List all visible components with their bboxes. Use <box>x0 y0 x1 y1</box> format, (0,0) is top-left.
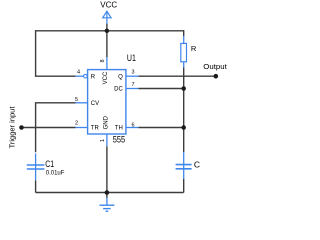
pin number 2 <box>75 121 78 127</box>
svg-text:VCC: VCC <box>100 1 117 10</box>
pin 7 DC stub <box>126 88 139 90</box>
pin name R <box>91 74 96 80</box>
node TH capacitor junction <box>181 125 186 130</box>
svg-text:R: R <box>191 44 197 53</box>
capacitor C <box>176 152 192 179</box>
pin 6 TH stub <box>126 127 139 129</box>
svg-text:U1: U1 <box>127 53 136 64</box>
power VCC arrow symbol <box>103 11 111 24</box>
svg-text:CV: CV <box>91 101 99 107</box>
svg-text:GND: GND <box>104 115 110 129</box>
pin name TR <box>91 126 100 132</box>
pin number 8 rotated <box>100 59 106 62</box>
svg-text:0.01uF: 0.01uF <box>46 170 65 177</box>
svg-text:4: 4 <box>77 70 80 76</box>
resistor R <box>181 36 187 68</box>
node trigger input terminal <box>19 125 24 130</box>
IC U1 555 timer body <box>88 70 126 134</box>
label U1 <box>127 53 136 64</box>
svg-text:8: 8 <box>100 59 106 62</box>
pin name GND rotated <box>104 115 110 129</box>
label R value <box>191 44 197 53</box>
pin name Q <box>118 74 123 80</box>
pin name CV <box>91 101 99 107</box>
pin name VCC rotated <box>103 71 109 84</box>
pin name DC <box>114 87 123 93</box>
label 0.01uF <box>46 170 65 177</box>
wire trigger input to TR pin <box>22 127 76 129</box>
wire bottom rail <box>36 192 184 194</box>
svg-text:DC: DC <box>114 87 123 93</box>
capacitor C1 <box>27 154 45 181</box>
pin 4 R stub with bubble <box>76 74 88 78</box>
pin number 7 <box>132 82 135 88</box>
svg-text:Output: Output <box>203 62 227 71</box>
svg-text:Trigger input: Trigger input <box>7 106 16 149</box>
wire VCC pin feed <box>106 24 108 58</box>
ground symbol <box>99 198 114 212</box>
svg-text:Q: Q <box>118 74 123 80</box>
pin 1 GND stub <box>106 134 108 146</box>
wire C1 to bottom rail <box>35 180 37 192</box>
svg-text:C: C <box>194 159 200 169</box>
svg-text:TR: TR <box>91 126 100 132</box>
svg-text:VCC: VCC <box>103 71 109 84</box>
pin number 4 <box>77 70 80 76</box>
svg-text:555: 555 <box>113 135 125 146</box>
label Trigger input net <box>7 106 16 149</box>
pin 8 VCC stub <box>106 57 108 69</box>
pin 3 Q stub <box>126 75 139 77</box>
wire resistor top lead <box>183 30 185 36</box>
label C value <box>194 159 200 169</box>
wire ground stub below rail <box>106 193 108 199</box>
wire top rail VCC <box>36 30 184 32</box>
node DC resistor junction <box>181 86 186 91</box>
pin number 1 rotated <box>100 139 106 142</box>
label 555 <box>113 135 125 146</box>
label VCC net <box>100 1 117 10</box>
svg-text:6: 6 <box>132 122 135 128</box>
wire DC to resistor node <box>139 88 184 90</box>
wire left drop to reset pin <box>36 30 76 76</box>
node ground junction <box>105 190 110 195</box>
pin 5 CV stub <box>76 102 88 104</box>
pin 2 TR stub <box>76 127 88 129</box>
label C1 <box>45 159 54 170</box>
svg-text:2: 2 <box>75 121 78 127</box>
label Output net <box>203 62 227 71</box>
wire Q output <box>139 75 216 77</box>
pin number 6 <box>132 122 135 128</box>
svg-text:TH: TH <box>115 126 123 132</box>
wire capacitor C to bottom rail <box>183 179 185 193</box>
wire resistor bottom to capacitor C <box>183 68 185 153</box>
svg-text:1: 1 <box>100 139 106 142</box>
wire TH to resistor node <box>139 127 184 129</box>
pin number 5 <box>75 97 78 103</box>
wire CV pin to C1 <box>36 103 76 153</box>
node output terminal <box>214 74 219 79</box>
pin number 3 <box>132 70 135 76</box>
svg-text:C1: C1 <box>45 159 54 170</box>
node VCC junction <box>105 29 110 34</box>
svg-text:R: R <box>91 74 96 80</box>
pin name TH <box>115 126 123 132</box>
wire GND pin to bottom rail <box>106 146 108 192</box>
svg-text:3: 3 <box>132 70 135 76</box>
svg-text:5: 5 <box>75 97 78 103</box>
svg-text:7: 7 <box>132 82 135 88</box>
